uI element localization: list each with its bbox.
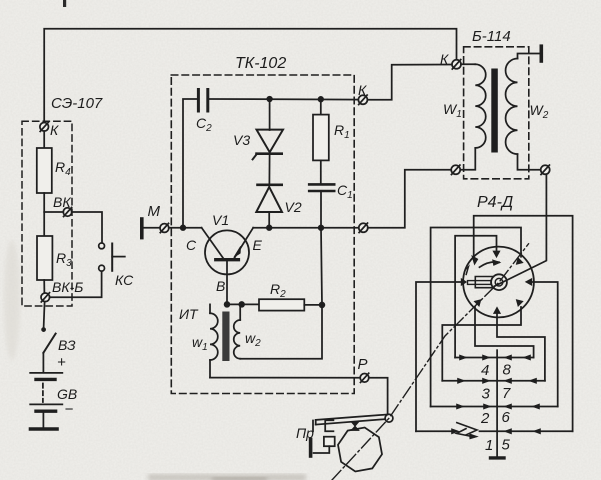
winding W1 [460,64,486,170]
rotor [468,274,507,290]
svg-text:ВЗ: ВЗ [58,337,76,353]
svg-text:GB: GB [57,386,77,402]
transistor V1 [202,228,254,275]
wire: 4:30 contact to row 3 [442,307,521,381]
terminal ВК-Б [41,293,50,302]
terminal К (ТК-102) [358,95,367,104]
junction [319,97,324,102]
cap contact 4:30 [516,300,523,307]
capacitor C2 [198,90,207,112]
svg-text:Р4-Д: Р4-Д [477,194,513,211]
svg-text:К: К [358,82,367,98]
block ТК-102 dashed box [171,75,354,394]
svg-text:V1: V1 [212,212,229,228]
capacitor C1 [309,184,334,191]
svg-text:С: С [186,237,197,253]
svg-text:К: К [440,51,449,67]
bottom scan smudge [4,240,306,480]
terminal (unlabeled, ТК-102 right) [359,223,368,232]
ground (battery minus) [31,427,58,431]
cap contact 9:00 [461,279,466,286]
plug lead row 1/5 with spark gap [416,429,573,434]
wire: 12:00 contact to row 4 [455,236,496,358]
svg-text:К: К [50,122,59,138]
winding W2 [506,54,541,170]
svg-text:Б-114: Б-114 [472,28,511,45]
shaft dash-dot line [332,244,529,480]
top edge tick [63,0,66,7]
fixed contact block [324,437,335,447]
svg-text:5: 5 [502,437,511,454]
cap contact 12:00 [493,251,500,257]
spark gap symbol [457,423,478,439]
transformer ИТ winding w1 [210,304,218,377]
wire [42,413,44,428]
wire: ВК branch to КС [44,212,102,243]
svg-text:ВК-Б: ВК-Б [52,279,83,295]
distributor cap [463,247,534,318]
pushbutton КС [99,243,125,271]
svg-text:СЭ-107: СЭ-107 [51,95,103,112]
junction [320,303,325,308]
junction [239,302,244,307]
svg-text:1: 1 [485,437,493,454]
plug lead row 3/7 [442,378,545,383]
plug lead row 4/8 [455,355,533,360]
wire [268,212,270,228]
terminal ВК [63,208,71,217]
resistor R3 [37,236,52,280]
wire [304,304,322,306]
svg-text:ИТ: ИТ [179,306,199,322]
svg-text:V2: V2 [285,199,302,215]
junction [267,97,272,102]
wire: 3:00 contact to row 6 [531,282,558,407]
wire: ВК-Б to КС lower contact [50,271,102,297]
svg-text:8: 8 [503,362,512,379]
svg-text:КС: КС [115,272,134,288]
wire [43,193,45,236]
wire: 10:30 contact to row 5 [474,216,573,432]
svg-text:ВК: ВК [53,194,71,210]
transformer ИТ core [222,312,229,362]
transformer ИТ winding w2 [234,304,240,358]
wire: emitter rail to coil W1 bottom terminal [368,170,451,228]
resistor R4 [37,148,52,193]
ground (breaker) [309,439,313,456]
svg-text:4: 4 [481,362,489,379]
cap contact 1:30 [516,258,523,265]
cap contact 3:00 [526,279,532,286]
breaker lever [313,415,386,432]
wire [43,131,45,148]
wire [227,303,259,305]
wire [42,353,44,372]
junction [267,225,272,230]
wire: top internal rail to К terminal [208,98,362,101]
terminal (Б-114 lower right) [541,165,550,174]
battery GB [30,373,62,411]
zener V3 [253,99,283,159]
svg-text:3: 3 [482,386,491,403]
svg-text:Пр: Пр [296,425,314,441]
wire: main top feed from СЭ-107 К to coil К [44,29,456,122]
terminal М [160,223,169,232]
wire to ground [314,446,330,453]
resistor R2 [259,299,304,310]
wire: 1:30 contact to row 2 [431,228,521,407]
wire: w1 bottom to Р terminal [210,377,360,379]
label 1 (cap index mark) [466,267,468,275]
svg-text:Р: Р [358,356,368,373]
svg-text:В: В [216,278,225,294]
cap contact 6:00 [494,307,501,313]
cam octagon [338,428,382,472]
breaker pivot [385,414,393,422]
wire: Р to breaker pivot [369,378,388,415]
wire: emitter rail [253,227,362,229]
wire: М rail to collector [169,227,202,229]
terminal Р [360,373,369,382]
cap contact 7:30 [474,300,481,307]
svg-text:7: 7 [502,385,511,402]
wire [143,227,160,229]
wire: R1/C1 branch down and across to w2 bottom [240,228,322,359]
wire: 7:30 contact to row 8 [475,307,534,358]
wire: HV lead down to rotor [495,174,547,286]
block СЭ-107 dashed box [22,121,72,306]
cam follower contacts [351,422,359,431]
rotation arrow [480,262,500,267]
terminal К (Б-114) [452,60,461,69]
wire: C2 left branch down to М rail [183,99,198,228]
svg-text:+: + [57,354,66,371]
diode V2 [256,185,282,212]
high-voltage terminal bar [539,46,543,61]
ground bar of М terminal [140,219,144,238]
terminal (Б-114 lower left) [451,165,460,174]
svg-text:М: М [148,203,161,220]
wire down to ВЗ [44,302,45,328]
svg-text:2: 2 [480,410,490,427]
svg-text:−: − [65,401,74,418]
wire: ТК К to coil К [367,65,452,100]
wire [43,280,45,293]
wire: 9:00 contact to row 1 [416,282,462,431]
block Б-114 dashed box [464,47,529,179]
svg-text:ТК-102: ТК-102 [235,55,286,72]
resistor R1 [313,99,329,184]
junction [181,225,186,230]
junction [319,226,324,231]
switch ВЗ [42,328,56,353]
svg-text:Е: Е [253,237,263,253]
wire: 6:00 contact to row 7 [497,314,545,381]
spark plug common line [496,350,498,456]
svg-text:V3: V3 [233,132,250,148]
coil core [491,69,498,153]
plug lead row 2/6 [431,404,558,409]
cap contact 10:30 [472,256,478,265]
svg-text:6: 6 [502,409,511,426]
wire [320,191,322,228]
wire: base lead [226,260,228,305]
junction [225,302,230,307]
terminal К (СЭ-107) [40,122,49,131]
wire [268,155,270,184]
